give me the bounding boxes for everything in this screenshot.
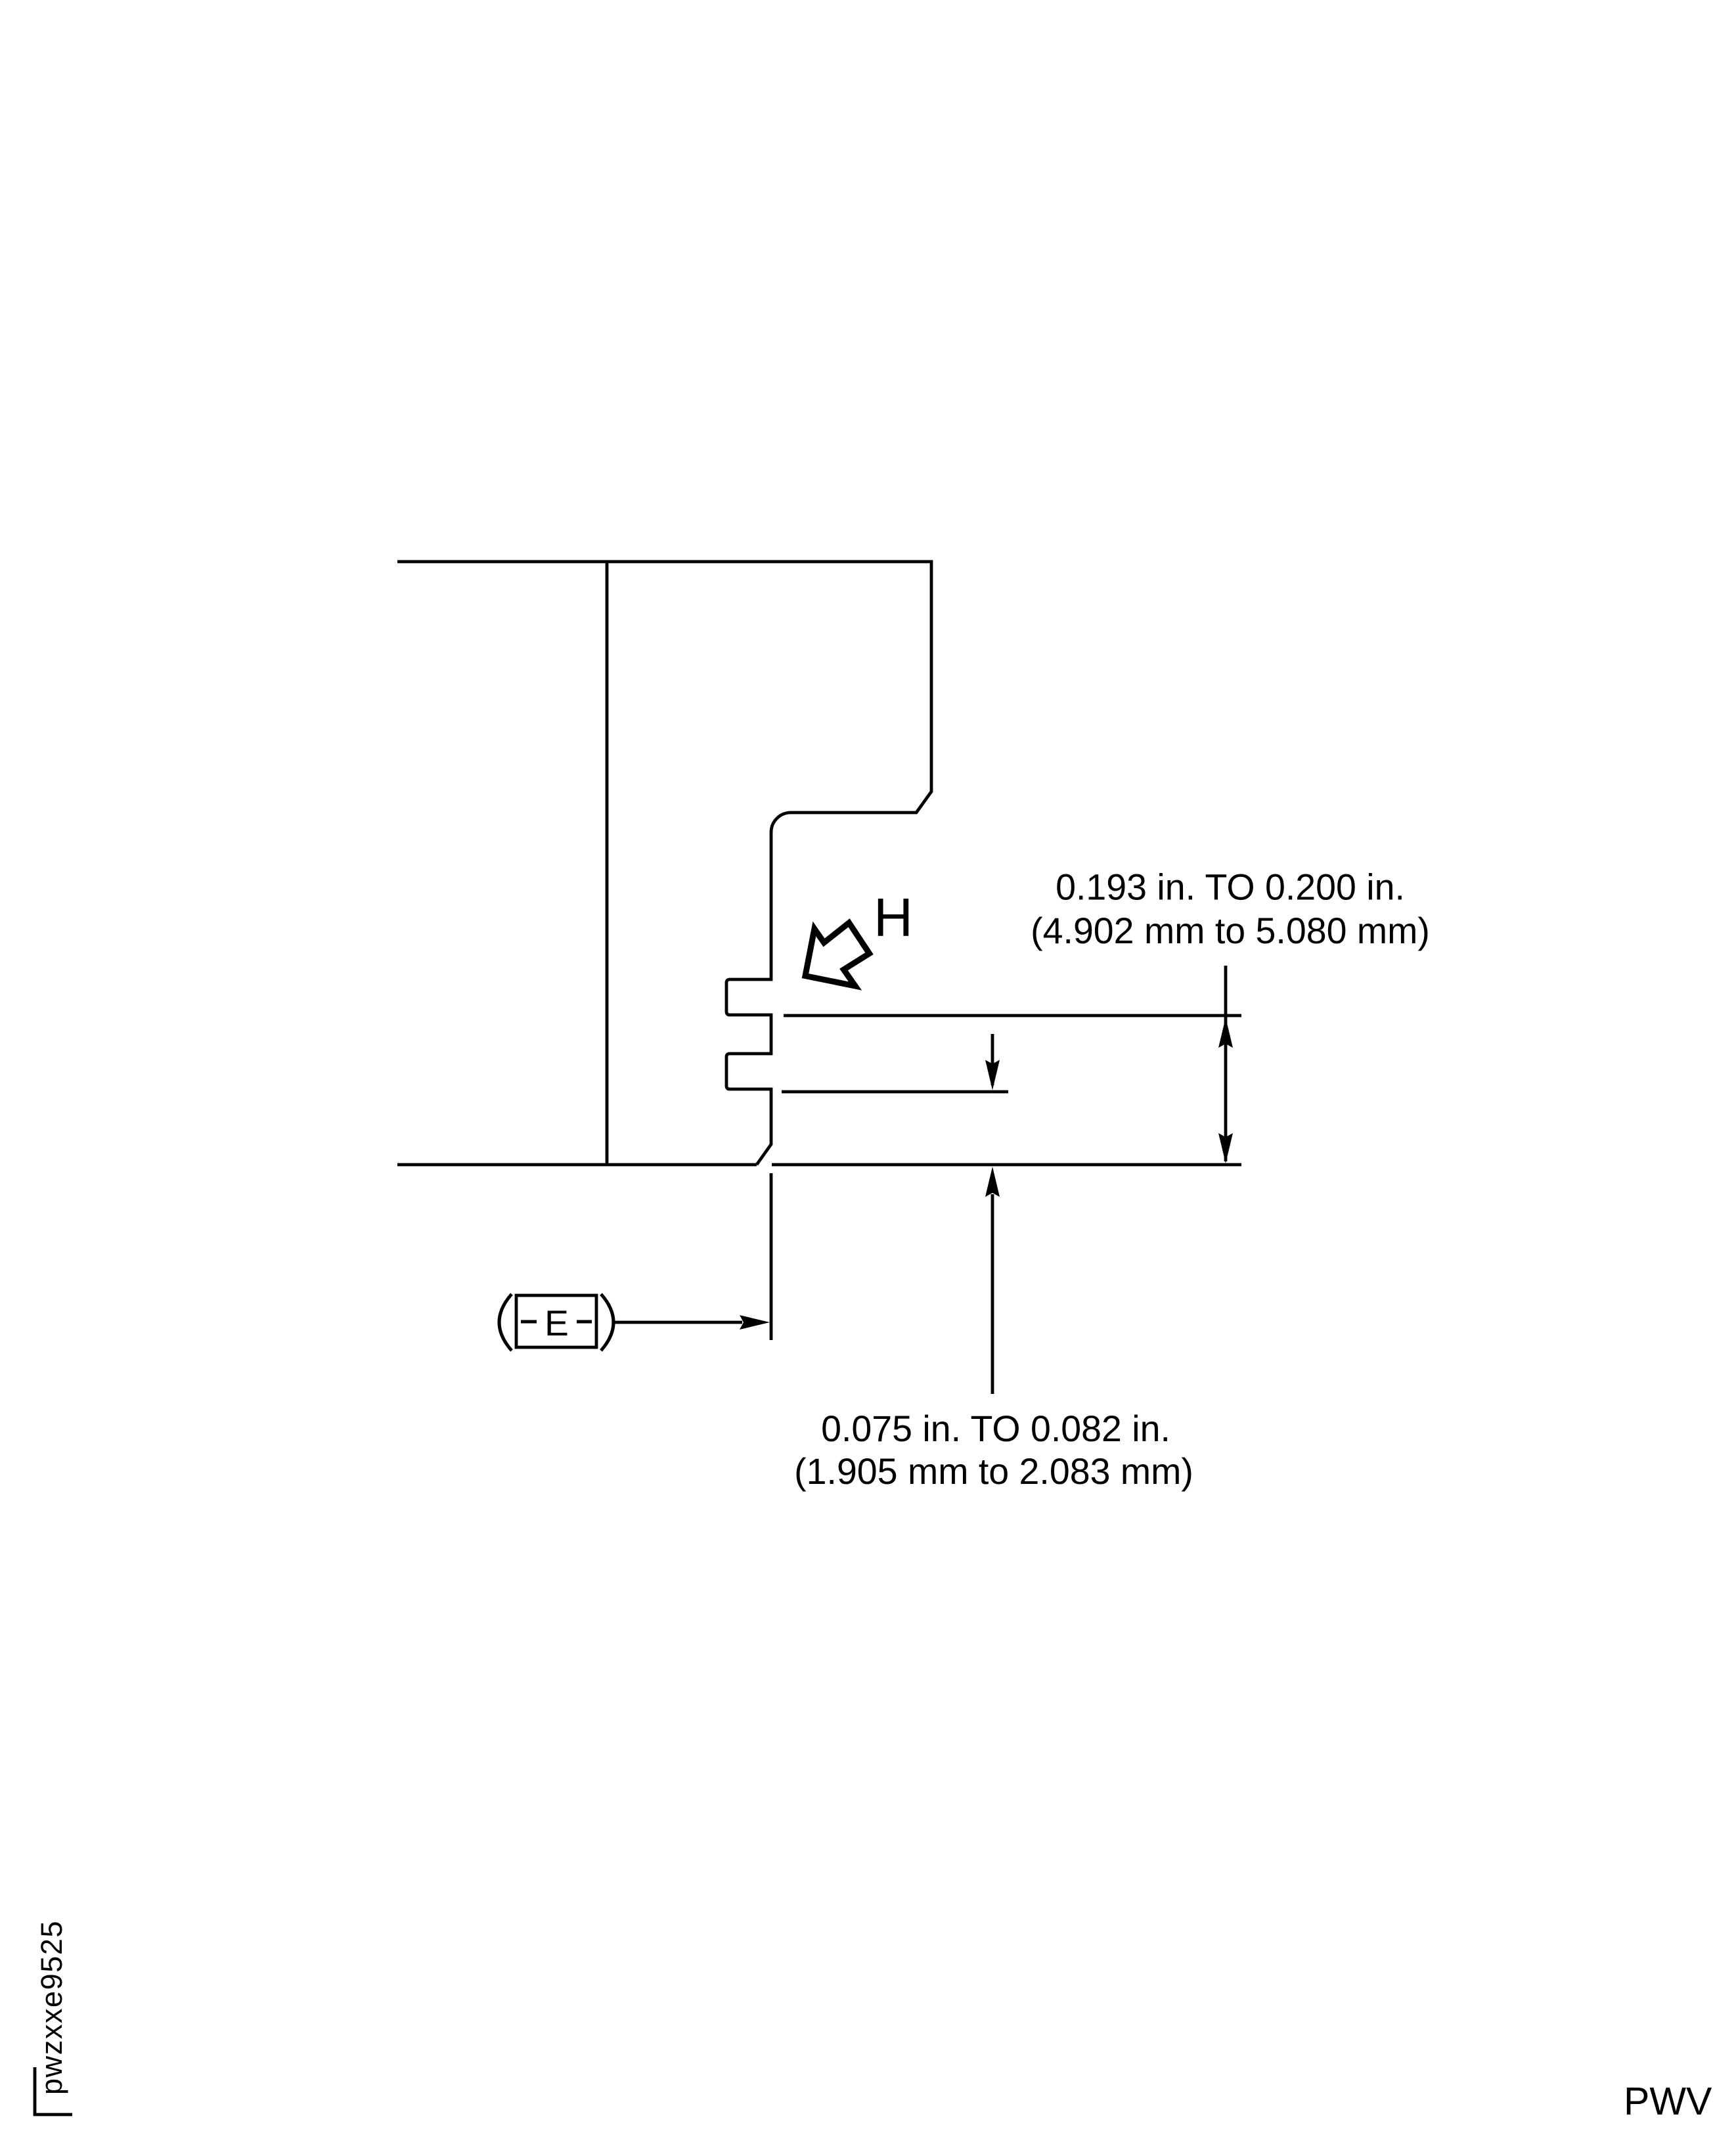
- svg-text:0.075 in. TO 0.082 in.: 0.075 in. TO 0.082 in.: [821, 1408, 1170, 1449]
- svg-text:PWV: PWV: [1624, 2080, 1712, 2123]
- svg-text:0.193 in. TO 0.200 in.: 0.193 in. TO 0.200 in.: [1056, 867, 1405, 908]
- svg-text:H: H: [874, 887, 913, 948]
- svg-text:E: E: [545, 1303, 569, 1343]
- svg-text:(1.905 mm to 2.083 mm): (1.905 mm to 2.083 mm): [794, 1451, 1193, 1492]
- svg-text:(4.902 mm to 5.080 mm): (4.902 mm to 5.080 mm): [1031, 910, 1430, 951]
- svg-text:pwzxxe9525: pwzxxe9525: [35, 1920, 68, 2095]
